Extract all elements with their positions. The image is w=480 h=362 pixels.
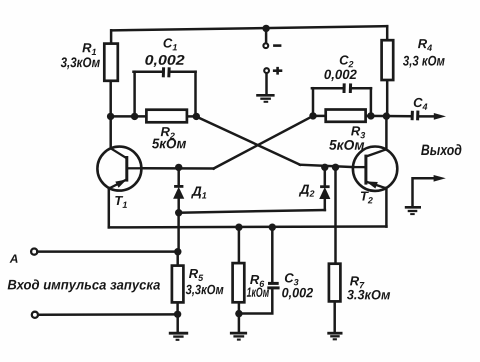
svg-text:3.3кОм: 3.3кОм bbox=[347, 287, 391, 302]
wire emitter bus bbox=[109, 225, 387, 228]
wire input bottom line bbox=[38, 313, 178, 316]
node C1 left bbox=[131, 113, 138, 120]
node C3 top on bus bbox=[269, 224, 276, 231]
ground battery bbox=[256, 95, 274, 102]
wire T1 base horizontal bbox=[141, 167, 214, 170]
wire C1 right stub bbox=[194, 72, 197, 117]
svg-text:C1: C1 bbox=[163, 36, 177, 53]
wire output ground arm bbox=[413, 178, 437, 206]
wire R1 bottom lead / T1 collector drop bbox=[109, 81, 112, 149]
resistor R7 bbox=[329, 264, 341, 302]
wire cross coupling diagonal B (T1 base to R3 node) bbox=[214, 116, 314, 169]
resistor R2 bbox=[146, 110, 187, 123]
wire T1 emitter drop bbox=[108, 188, 111, 227]
svg-text:3,3кОм: 3,3кОм bbox=[186, 282, 224, 297]
node D1 bottom bbox=[175, 209, 182, 216]
svg-text:R4: R4 bbox=[418, 36, 432, 53]
wire R4 bottom lead bbox=[386, 80, 389, 116]
wire node1 horizontal (T1 collector to R2) bbox=[111, 115, 147, 118]
node input top / R5 / D1 bbox=[174, 248, 181, 255]
node battery tap on rail bbox=[262, 25, 269, 32]
wire R6 top lead bbox=[238, 227, 241, 263]
wire input top line bbox=[37, 250, 178, 253]
resistor R6 bbox=[233, 263, 245, 302]
wire R7 ground lead bbox=[333, 301, 336, 332]
svg-text:Д1: Д1 bbox=[191, 184, 207, 201]
wire R5 ground lead bbox=[176, 314, 179, 332]
wire R3 left lead bbox=[313, 115, 326, 118]
wire T2 base horizontal bbox=[300, 165, 353, 167]
node junction dots bbox=[107, 25, 390, 318]
wire R5 bottom lead bbox=[176, 302, 179, 314]
svg-text:0,002: 0,002 bbox=[282, 285, 314, 300]
wire R2 right lead bbox=[187, 115, 197, 118]
wire C1 top link bbox=[134, 70, 196, 73]
svg-text:5кОм: 5кОм bbox=[152, 135, 187, 151]
wire R7 drop from T2 base node bbox=[334, 167, 337, 263]
wire C2 top link bbox=[312, 87, 371, 90]
transistor T2 bbox=[353, 147, 397, 191]
node R6 top on bus bbox=[235, 224, 242, 231]
node T1 base / D1 bbox=[175, 164, 182, 171]
wire T2 collector riser bbox=[385, 116, 388, 149]
svg-text:C4: C4 bbox=[413, 95, 427, 112]
capacitor C2 bbox=[344, 83, 351, 93]
terminal battery minus bbox=[263, 43, 268, 48]
wire D1 cathode stem bbox=[177, 198, 180, 213]
ground R7 bbox=[327, 333, 342, 339]
wire T2 emitter drop bbox=[385, 188, 388, 227]
svg-text:Д2: Д2 bbox=[299, 182, 315, 199]
svg-text:0,002: 0,002 bbox=[145, 52, 185, 68]
svg-text:3,3кОм: 3,3кОм bbox=[61, 54, 101, 70]
capacitor C4 bbox=[412, 111, 418, 121]
wire D1-D2 bottom link bbox=[179, 210, 325, 213]
capacitor C1 bbox=[163, 67, 169, 77]
wire D2 anode stem bbox=[324, 167, 327, 185]
wire R5 top lead bbox=[176, 252, 179, 266]
wire C4 output lead bbox=[418, 115, 438, 118]
wire C2 right stub bbox=[370, 88, 373, 116]
transistor T1 bbox=[97, 147, 141, 191]
svg-text:T1: T1 bbox=[114, 193, 127, 210]
output arrow top (C4 output) bbox=[434, 113, 446, 120]
output arrow bottom (ground reference) bbox=[434, 175, 446, 182]
node T2 base / D2 bbox=[321, 164, 328, 171]
svg-text:3,3 кОм: 3,3 кОм bbox=[403, 52, 446, 68]
node C2 right bbox=[367, 112, 374, 119]
resistor R3 bbox=[326, 110, 366, 122]
svg-text:0,002: 0,002 bbox=[324, 67, 357, 82]
wire C2 left stub bbox=[312, 88, 315, 116]
svg-text:А: А bbox=[9, 252, 19, 266]
wire R1 top lead bbox=[110, 30, 113, 44]
wire C3 bottom lead to R6 node bbox=[239, 288, 272, 313]
node R6 bottom / C3 bbox=[235, 310, 242, 317]
terminal input bottom bbox=[32, 312, 38, 318]
diode D2 bbox=[320, 187, 330, 199]
terminal input A top bbox=[31, 249, 37, 255]
wire D1 anode stem bbox=[177, 167, 180, 185]
ground R6 bbox=[230, 333, 247, 340]
svg-text:Выход: Выход bbox=[421, 142, 462, 159]
diode D1 bbox=[174, 186, 184, 198]
wire battery plus to ground bbox=[265, 74, 268, 94]
svg-text:1кОм: 1кОм bbox=[247, 285, 270, 300]
node R2/C1 right bbox=[193, 113, 200, 120]
capacitor C3 bbox=[267, 283, 279, 288]
wire R6 ground lead bbox=[238, 314, 241, 332]
resistor R4 bbox=[382, 40, 394, 80]
wire D2 cathode stem bbox=[324, 199, 327, 211]
terminal battery plus bbox=[264, 68, 269, 73]
node T2 base / R7 bbox=[332, 164, 339, 171]
wire R4 top lead bbox=[386, 26, 389, 40]
resistor R5 bbox=[172, 266, 184, 303]
wire D1 node to input node bbox=[177, 213, 180, 252]
wire R3 right lead to C4 bbox=[366, 115, 412, 118]
ground R5 bbox=[169, 333, 188, 340]
node R4 bottom / T2 collector bbox=[383, 112, 390, 119]
wire C3 top lead bbox=[271, 227, 274, 283]
battery minus sign bbox=[273, 44, 281, 47]
svg-text:5кОм: 5кОм bbox=[329, 137, 365, 153]
wire R6 bottom lead bbox=[238, 302, 241, 313]
node T1 collector bbox=[107, 113, 114, 120]
node R5 bottom bbox=[174, 311, 181, 318]
node R3/C2 left bbox=[309, 112, 316, 119]
ground output bbox=[405, 207, 421, 214]
wire battery minus drop bbox=[265, 29, 268, 43]
battery plus sign bbox=[273, 67, 282, 75]
svg-text:R5: R5 bbox=[189, 266, 204, 283]
svg-text:Вход импульса запуска: Вход импульса запуска bbox=[7, 277, 160, 292]
wire top supply rail bbox=[112, 26, 387, 30]
wire C1 left stub bbox=[133, 72, 136, 117]
resistor R1 bbox=[104, 44, 118, 81]
wire cross coupling diagonal A (R2 node to T2 base) bbox=[196, 117, 300, 165]
